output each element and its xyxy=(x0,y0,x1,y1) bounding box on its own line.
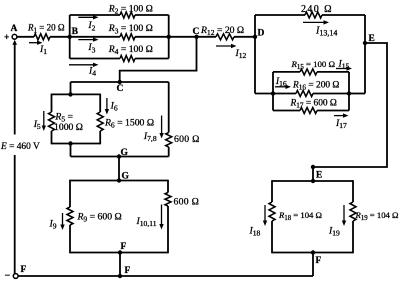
wire 600ohm branch lower xyxy=(168,147,170,157)
svg-text:F: F xyxy=(316,256,322,266)
current arrow I2 xyxy=(78,15,98,32)
svg-text:I4: I4 xyxy=(88,66,96,78)
resistor R9 xyxy=(67,207,73,225)
svg-text:F: F xyxy=(21,265,27,275)
svg-text:I18: I18 xyxy=(249,226,261,238)
label R19 = 104 ohm xyxy=(355,210,399,222)
wire R2 branch right xyxy=(135,14,169,16)
wire R19 branch upper xyxy=(352,180,354,202)
svg-text:C: C xyxy=(193,27,200,37)
resistor R2 xyxy=(120,12,135,18)
wire right box top edge xyxy=(272,180,353,182)
wire D to parallel group xyxy=(255,93,273,95)
svg-text:I6: I6 xyxy=(110,101,118,113)
wire D vertical xyxy=(254,15,256,94)
svg-text:I15: I15 xyxy=(338,59,350,71)
wire R12 to D xyxy=(234,36,255,38)
label R17 = 600 ohm xyxy=(290,99,337,110)
svg-text:E: E xyxy=(316,171,322,181)
label R16 = 200 ohm xyxy=(292,81,339,92)
wire R16 branch left xyxy=(273,93,296,95)
label 600 ohm (R10,11) xyxy=(174,197,200,208)
svg-text:R16 = 200 Ω: R16 = 200 Ω xyxy=(292,81,339,92)
wire R19 branch lower xyxy=(352,221,354,253)
svg-text:I1: I1 xyxy=(39,44,47,56)
label R1 = 20 ohm xyxy=(27,23,65,35)
wire B vertical xyxy=(69,15,71,59)
svg-text:R6 = 1500 Ω: R6 = 1500 Ω xyxy=(104,118,154,130)
wire R4 branch left xyxy=(70,58,120,60)
resistor R10-11 600 ohm xyxy=(165,193,171,207)
resistor R19 xyxy=(350,202,356,221)
svg-text:I12: I12 xyxy=(235,48,247,60)
label R6 = 1500 ohm xyxy=(104,118,154,130)
resistor R12 xyxy=(216,34,234,40)
label R12 = 20 ohm xyxy=(200,25,244,37)
node F (right box) xyxy=(311,250,322,266)
svg-text:I13,14: I13,14 xyxy=(315,26,337,38)
wire R18 branch upper xyxy=(271,180,273,202)
svg-text:I3: I3 xyxy=(87,42,95,54)
wire R18 branch lower xyxy=(271,221,273,253)
wire R15 branch right xyxy=(317,71,349,73)
current arrow I1 xyxy=(29,41,47,57)
svg-text:D: D xyxy=(258,29,265,39)
wire G connector down xyxy=(118,157,120,181)
resistor R16 xyxy=(296,91,313,97)
battery positive terminal node A xyxy=(4,24,18,43)
wire R17 branch left xyxy=(273,110,300,112)
resistor R6 xyxy=(97,112,103,131)
current arrow I4 xyxy=(69,63,99,78)
node C (top) xyxy=(193,27,200,39)
resistor R3 xyxy=(120,34,135,40)
wire left rail upper (A down to E label) xyxy=(14,45,16,135)
junction parallel-group right xyxy=(347,91,351,95)
label R4 = 100 ohm xyxy=(108,44,153,56)
node G (upper) xyxy=(117,148,129,159)
label R9 = 600 ohm xyxy=(77,212,122,224)
node G (lower) xyxy=(117,172,130,183)
junction group-right on main line xyxy=(167,35,171,39)
resistor R1 xyxy=(34,34,50,40)
wire R5 branch lower xyxy=(51,131,53,144)
current arrow I15 xyxy=(336,59,352,71)
wire R10-11 branch lower xyxy=(167,206,169,253)
wire F stub down to bottom rail xyxy=(312,253,314,277)
wire E vertical xyxy=(364,15,366,94)
wire 240ohm branch left xyxy=(255,14,305,16)
resistor R13-14 240 ohm xyxy=(305,12,322,18)
battery negative terminal node F xyxy=(5,265,27,281)
wire group right edge xyxy=(348,72,350,111)
svg-text:I2: I2 xyxy=(87,20,95,32)
wire R5 branch upper xyxy=(51,94,53,112)
wire R3 branch right xyxy=(135,36,197,38)
wire lower box bottom edge xyxy=(70,252,168,254)
wire F connector down xyxy=(119,253,121,277)
junction C on wide line xyxy=(117,80,124,94)
svg-text:I17: I17 xyxy=(335,118,347,130)
wire R6 branch lower xyxy=(99,131,101,144)
svg-text:R3 = 100 Ω: R3 = 100 Ω xyxy=(108,23,153,35)
label 600 ohm (R7,8) xyxy=(174,134,200,145)
wire R17 branch right xyxy=(317,110,349,112)
wire parallel-group right edge xyxy=(168,15,170,59)
svg-text:R19 = 104 Ω: R19 = 104 Ω xyxy=(355,210,399,222)
svg-text:A: A xyxy=(11,24,18,34)
svg-text:600 Ω: 600 Ω xyxy=(174,197,200,208)
current arrow I12 xyxy=(216,44,247,60)
svg-text:240 Ω: 240 Ω xyxy=(301,4,333,15)
svg-text:+: + xyxy=(4,33,9,43)
resistor R17 xyxy=(300,108,317,114)
wire group right to E vertical xyxy=(349,93,365,95)
resistor R4 xyxy=(120,56,135,62)
svg-text:I16: I16 xyxy=(275,76,287,88)
svg-text:G: G xyxy=(121,148,129,158)
label 240 ohm xyxy=(301,4,333,15)
svg-text:R18 = 104 Ω: R18 = 104 Ω xyxy=(278,210,322,222)
wire R2 branch left xyxy=(70,14,120,16)
resistor R7-8 600 ohm xyxy=(166,133,172,148)
svg-text:F: F xyxy=(125,266,131,276)
label R18 = 104 ohm xyxy=(278,210,322,222)
current arrow I13,14 xyxy=(303,20,337,38)
wire R9 branch upper xyxy=(69,180,71,207)
svg-text:I10,11: I10,11 xyxy=(136,216,157,228)
wire R6 branch upper xyxy=(99,94,101,112)
wire bottom rail xyxy=(18,275,313,277)
wire R16 branch right xyxy=(313,93,349,95)
svg-text:R2 = 100 Ω: R2 = 100 Ω xyxy=(108,4,153,16)
current arrow I18 xyxy=(249,205,268,238)
current arrow I3 xyxy=(78,37,98,54)
node E (top) xyxy=(363,34,375,45)
current arrow I6 xyxy=(105,98,118,115)
current arrow I7,8 xyxy=(143,116,164,144)
svg-text:I19: I19 xyxy=(328,226,340,238)
node F (lower box) xyxy=(118,242,127,255)
svg-text:R17 = 600 Ω: R17 = 600 Ω xyxy=(290,99,337,110)
current arrow I17 xyxy=(334,113,349,130)
junction box bottom xyxy=(68,141,72,145)
label R5 = 1000 ohm xyxy=(54,112,83,133)
wire E to right rail xyxy=(313,43,387,167)
current arrow I16 xyxy=(275,76,291,89)
svg-text:R12 = 20 Ω: R12 = 20 Ω xyxy=(200,25,244,37)
svg-text:E = 460 V: E = 460 V xyxy=(0,142,40,152)
current arrow I5 xyxy=(33,111,46,131)
wire R1 to B xyxy=(50,36,70,38)
wire E stub down xyxy=(312,167,314,181)
label R2 = 100 ohm xyxy=(108,4,153,16)
resistor R5 xyxy=(49,112,55,131)
wire R15 branch left xyxy=(273,71,300,73)
svg-text:1000 Ω: 1000 Ω xyxy=(54,122,83,133)
svg-text:R4 = 100 Ω: R4 = 100 Ω xyxy=(108,44,153,56)
wire left rail lower (E label down to F) xyxy=(14,155,16,274)
svg-text:I9: I9 xyxy=(49,219,57,231)
svg-text:C: C xyxy=(117,84,124,94)
svg-text:−: − xyxy=(5,271,11,281)
wire lower box top edge xyxy=(70,180,168,182)
svg-text:I5: I5 xyxy=(33,119,41,131)
svg-text:I7,8: I7,8 xyxy=(143,131,157,143)
wire 240ohm branch right xyxy=(322,14,365,16)
current arrow I19 xyxy=(328,205,346,238)
current arrow I10,11 xyxy=(136,205,164,230)
current arrow I9 xyxy=(49,213,65,231)
wire box bottom to G line xyxy=(70,144,72,157)
battery source label E = 460 V xyxy=(0,142,40,152)
wire R4 branch right xyxy=(135,58,169,60)
wire node C drop (C down, left, down to junction) xyxy=(120,37,197,82)
resistor R15 xyxy=(300,69,317,75)
wire connector to R5-R6 box top xyxy=(70,82,72,94)
wire R5-R6 box bottom edge xyxy=(52,143,101,145)
wire 600ohm branch upper xyxy=(168,82,170,133)
wire C to R12 xyxy=(197,36,217,38)
label R15 = 100 ohm xyxy=(291,59,336,71)
wire R3 branch left (B to zigzag) xyxy=(70,36,120,38)
resistor R18 xyxy=(269,202,275,221)
node F (bottom wire) xyxy=(118,266,131,278)
junction right box top xyxy=(311,179,315,183)
label R3 = 100 ohm xyxy=(108,23,153,35)
node D xyxy=(253,29,265,40)
wire R9 branch lower xyxy=(69,225,71,253)
node E (right) xyxy=(311,165,323,181)
wire A to R1 xyxy=(17,36,34,38)
wire group left edge xyxy=(272,72,274,111)
node B xyxy=(68,27,79,39)
wire R10-11 branch upper xyxy=(167,180,169,193)
svg-text:600 Ω: 600 Ω xyxy=(174,134,200,145)
wire right box bottom edge xyxy=(272,252,353,254)
svg-text:B: B xyxy=(72,27,79,37)
current direction arrowhead below A xyxy=(12,40,17,45)
wire G line xyxy=(71,156,169,158)
svg-text:R9 = 600 Ω: R9 = 600 Ω xyxy=(77,212,122,224)
svg-text:F: F xyxy=(121,242,127,252)
wire R5-R6 box top edge xyxy=(52,93,101,95)
junction parallel-group left xyxy=(271,91,275,95)
wire C-section top line xyxy=(71,81,169,83)
junction box top xyxy=(68,92,72,96)
